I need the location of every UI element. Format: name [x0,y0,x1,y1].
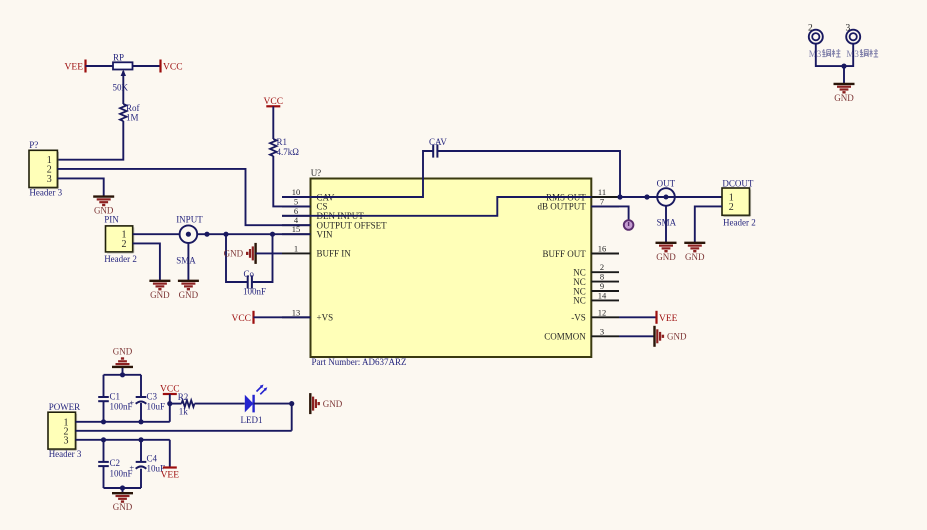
wire R1 to U? pin 5 CS [273,156,310,206]
junction bottom ground rail [120,485,125,490]
svg-text:2: 2 [729,202,734,213]
bottom ground rail [104,487,142,489]
power port VCC (pot right) [161,60,183,73]
mounting hole 2 [809,30,823,44]
wire C2 bottom [103,466,105,488]
svg-text:COMMON: COMMON [544,332,586,342]
junction dot on VIN net 1 [204,232,209,237]
junction at CAV/RMS OUT [617,194,622,199]
mounting hole 2 label M3 [809,49,841,59]
wire wiper down to Rof [122,76,124,105]
svg-text:PIN: PIN [104,215,119,225]
wire U? pin 6 DEN INPUT to RMS OUT [282,197,591,216]
svg-text:4.7kΩ: 4.7kΩ [277,147,300,157]
ground below P? [93,197,114,216]
svg-text:-VS: -VS [571,313,586,323]
power port VEE (below C4) [161,468,180,481]
svg-text:1k: 1k [179,407,189,417]
sideways ground at LED [310,393,342,414]
wire Rof to P? pin 1 [57,121,123,160]
wire C4 bottom [140,469,142,488]
diode LED1 [245,385,267,413]
wire POWER pin 1 VCC rail [76,421,170,423]
svg-text:13: 13 [292,307,301,317]
svg-text:GND: GND [113,502,133,512]
U? right pin stubs [591,187,619,336]
svg-text:VEE: VEE [659,314,678,324]
svg-text:NC: NC [573,296,586,306]
svg-text:C4: C4 [147,454,158,464]
wire R2 to LED1 [195,403,245,405]
resistor Rof 1M [120,103,140,123]
wire U? pin 12 -VS to VEE [619,316,657,318]
resistor R1 4.7k [270,137,299,157]
svg-text:2: 2 [808,24,813,34]
svg-text:Co: Co [244,269,255,279]
wire C1 top [103,375,105,397]
wire rail to upper ground [122,367,124,375]
junction VCC/R2 [167,401,172,406]
svg-text:VCC: VCC [163,63,183,73]
svg-text:Rof: Rof [126,103,140,113]
svg-text:C1: C1 [110,392,121,402]
wire PIN pin 2 to ground [133,243,160,280]
ground below PIN header [149,281,170,300]
resistor R2 1k [182,400,195,407]
svg-text:7: 7 [600,196,604,206]
svg-text:+VS: +VS [317,313,334,323]
wire POWER pin 3 VEE rail [76,439,170,441]
wire C3 to rail [140,403,142,422]
svg-text:U?: U? [311,168,322,178]
junction C1 bottom [101,419,106,424]
ground above capacitor rail [112,346,133,367]
U? right pin names [538,192,587,341]
wire C2 top [103,440,105,462]
svg-text:DCOUT: DCOUT [722,178,754,188]
U? left pin stubs [282,187,311,317]
svg-text:2: 2 [122,239,127,250]
svg-text:16: 16 [598,244,607,254]
capacitor C2 plates [98,462,109,466]
junction C3 bottom [138,419,143,424]
power port VEE (-VS) [657,311,678,324]
wire P? pin 3 to ground [57,178,103,196]
wire RP to VCC [133,65,161,67]
junction LED cathode [289,401,294,406]
capacitor C4 plates [129,462,146,473]
sideways ground at COMMON [655,326,687,347]
wire C1 to top ground rail [103,401,105,422]
svg-text:Part Number: AD637ARZ: Part Number: AD637ARZ [312,357,407,367]
wire POWER pin 2 GND rail [76,430,292,432]
svg-text:P?: P? [29,140,38,150]
svg-text:GND: GND [113,346,133,356]
ground below capacitor rail [112,493,133,512]
connector INPUT SMA [180,225,198,243]
svg-text:+: + [129,398,134,408]
capacitor C3 plates [129,397,146,408]
power port VEE (pot left) [65,60,86,73]
mounting hole 3 [846,30,860,44]
wire VEE to RP [86,65,114,67]
junction C2 top [101,437,106,442]
svg-text:+: + [129,462,134,472]
svg-text:GND: GND [685,252,705,262]
svg-text:POWER: POWER [49,402,80,412]
wire LED junction down to pin2 rail [291,404,293,431]
wire VIN to Co left [226,234,248,282]
capacitor C1 plates [98,397,109,401]
capacitor CAV [433,144,437,157]
svg-text:R2: R2 [178,392,189,402]
svg-text:RP: RP [113,53,124,63]
wire U? pin 7 dB OUTPUT stub [591,206,628,224]
junction at mounting gnd [841,64,846,69]
ground below mounting holes [834,84,855,103]
svg-text:Header 2: Header 2 [104,254,137,264]
connector OUT SMA [657,188,675,206]
connector POWER Header 3 [48,412,76,450]
svg-text:SMA: SMA [176,256,196,266]
svg-text:C3: C3 [147,392,158,402]
mounting hole 3 label M3 [846,49,878,59]
connector DCOUT Header 2 [722,188,750,216]
svg-text:14: 14 [598,290,607,300]
svg-text:12: 12 [598,307,607,317]
wire PIN pin 1 to INPUT SMA [133,233,180,235]
wire Co right to VIN [252,234,273,282]
wire DCOUT pin 2 to ground [695,206,722,242]
wire VCC down to pin1 rail [169,394,171,422]
svg-text:CAV: CAV [429,137,447,147]
wire INPUT SMA shell to ground [187,243,189,281]
wire rail to lower ground [122,488,124,493]
junction dot on VIN net 2 [223,232,228,237]
connector PIN Header 2 [106,226,134,253]
svg-text:GND: GND [834,93,854,103]
wire RMS OUT to DCOUT pin 1 [619,196,722,198]
svg-text:3: 3 [846,24,851,34]
svg-text:VEE: VEE [161,471,180,481]
svg-text:GND: GND [323,399,343,409]
wire C3 top [140,375,142,397]
wire VCC to R1 [272,106,274,139]
wire C4 top [140,440,142,462]
RP wiper arrow [121,70,126,77]
svg-text:VCC: VCC [160,385,180,395]
svg-text:3: 3 [600,326,604,336]
svg-text:50K: 50K [113,83,129,93]
wire U? pin 3 COMMON to ground [619,335,655,337]
svg-text:10uF: 10uF [147,402,166,412]
svg-text:dB OUTPUT: dB OUTPUT [538,202,587,212]
potentiometer RP body [113,53,133,93]
capacitor Co [248,275,252,288]
wire VCC to U? pin 13 +VS [254,316,311,318]
svg-text:GND: GND [179,290,199,300]
wire LED1 to ground junction [254,403,292,405]
ground below INPUT SMA [178,281,199,300]
wire pin3 rail down to VEE [169,440,171,468]
power port VCC (LED supply) [160,385,180,395]
svg-text:BUFF OUT: BUFF OUT [543,249,587,259]
power port VCC (+VS) [231,311,253,324]
top ground rail [104,374,142,376]
svg-text:VCC: VCC [231,314,251,324]
wire BUFF IN ground to U? pin 1 [256,252,282,254]
svg-text:OUT: OUT [657,179,676,189]
svg-text:VEE: VEE [65,63,84,73]
sideways ground at BUFF IN [224,243,256,264]
wire CAV capacitor to RMS OUT node [438,151,620,197]
wire VCC junction to R2 [170,403,182,405]
junction dot on VIN net 3 [270,232,275,237]
svg-text:BUFF IN: BUFF IN [317,249,352,259]
op-amp U? (AD637 IC body) [311,179,592,358]
wire U? pin 10 CAV up to capacitor [282,151,433,197]
svg-text:LED1: LED1 [241,415,263,425]
no-connect marker on dB OUTPUT [624,220,634,230]
svg-text:GND: GND [656,252,676,262]
wire mounting junction to ground [843,66,845,83]
svg-text:R1: R1 [277,137,288,147]
wire mounting hole 2 down [816,44,853,66]
svg-text:C2: C2 [110,458,121,468]
svg-text:INPUT: INPUT [176,215,203,225]
wire OUT SMA shell to ground [665,206,667,243]
svg-text:Header 2: Header 2 [723,218,756,228]
ground below DCOUT [684,243,705,262]
svg-text:3: 3 [64,435,69,446]
svg-text:GND: GND [224,249,244,259]
junction on RMS OUT net [644,194,649,199]
wire P? pin 2 to U? pin 4 OUTPUT OFFSET [57,169,310,225]
power port VCC (above R1) [264,97,284,107]
junction C4 top [138,437,143,442]
svg-text:VCC: VCC [264,97,284,107]
svg-text:Header 3: Header 3 [29,187,62,197]
svg-text:Header 3: Header 3 [49,449,82,459]
svg-text:GND: GND [667,332,687,342]
ground below OUT SMA [656,243,677,262]
svg-text:1: 1 [294,243,298,253]
U? left pin names [317,192,388,322]
svg-text:VIN: VIN [317,230,333,240]
svg-text:3: 3 [47,174,52,185]
svg-text:GND: GND [150,290,170,300]
wire INPUT SMA to U? pin 15 VIN [197,233,310,235]
svg-text:100nF: 100nF [243,287,266,297]
connector P? Header 3 [29,150,58,188]
junction top ground rail [120,372,125,377]
svg-text:1M: 1M [126,113,139,123]
